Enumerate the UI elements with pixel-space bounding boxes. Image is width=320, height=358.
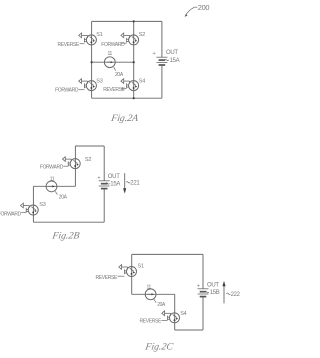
svg-text:FORWARD: FORWARD [40, 165, 64, 171]
svg-text:+: + [153, 51, 156, 57]
svg-text:REVERSE: REVERSE [103, 87, 125, 93]
svg-text:S1: S1 [96, 32, 102, 38]
svg-text:15A: 15A [170, 58, 180, 64]
svg-text:S2: S2 [85, 157, 91, 163]
svg-text:20A: 20A [115, 72, 124, 78]
svg-text:FORWARD: FORWARD [101, 42, 125, 48]
svg-text:20A: 20A [59, 195, 68, 201]
svg-text:222: 222 [231, 292, 240, 298]
svg-text:OUT: OUT [166, 50, 178, 56]
svg-text:S4: S4 [180, 311, 186, 317]
svg-text:221: 221 [130, 180, 140, 186]
svg-text:15A: 15A [110, 181, 120, 187]
svg-text:FORWARD: FORWARD [55, 87, 79, 93]
svg-text:S2: S2 [139, 32, 145, 38]
svg-text:+: + [197, 284, 200, 290]
svg-text:REVERSE: REVERSE [140, 318, 162, 324]
svg-text:REVERSE: REVERSE [96, 275, 118, 281]
svg-text:Fig.2B: Fig.2B [51, 231, 81, 242]
svg-text:S3: S3 [96, 78, 102, 84]
svg-text:11: 11 [147, 284, 152, 290]
svg-text:FORWARD: FORWARD [0, 212, 22, 218]
svg-text:15B: 15B [210, 290, 220, 296]
svg-text:200: 200 [198, 3, 210, 12]
svg-text:REVERSE: REVERSE [58, 42, 80, 48]
svg-text:S4: S4 [139, 78, 145, 84]
svg-text:11: 11 [50, 176, 55, 182]
svg-text:S1: S1 [138, 263, 144, 269]
svg-text:OUT: OUT [108, 174, 120, 180]
svg-text:11: 11 [108, 51, 113, 57]
svg-text:Fig.2A: Fig.2A [109, 113, 140, 124]
svg-text:OUT: OUT [207, 283, 219, 289]
svg-text:20A: 20A [157, 302, 166, 308]
svg-text:+: + [97, 175, 100, 181]
svg-text:S3: S3 [39, 202, 45, 208]
svg-text:Fig.2C: Fig.2C [144, 341, 175, 352]
